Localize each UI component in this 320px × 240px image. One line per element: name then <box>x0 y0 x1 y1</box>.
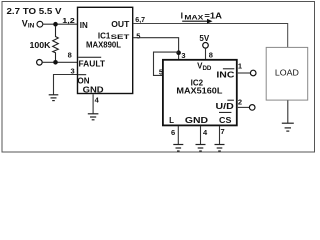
load label <box>275 68 299 78</box>
pin name VDD <box>197 61 212 72</box>
wire SET to IC2 W pin <box>133 38 178 60</box>
wire VIN to IC1 IN <box>43 23 78 25</box>
svg-text:GND: GND <box>83 85 104 94</box>
wire L to ground <box>177 126 179 144</box>
wire OUT to LOAD <box>133 24 287 48</box>
current arrow <box>182 19 212 24</box>
pin label 1,2 <box>62 16 75 25</box>
svg-text:GND: GND <box>185 116 208 125</box>
svg-text:2: 2 <box>238 97 242 106</box>
supply label 5V <box>199 34 209 43</box>
svg-text:2.7 TO 5.5 V: 2.7 TO 5.5 V <box>7 7 63 16</box>
pin label 1 <box>238 61 242 70</box>
pin name ON with overline <box>78 75 90 86</box>
ground LOAD <box>282 123 294 131</box>
pin name GND IC1 <box>83 85 104 94</box>
svg-text:7: 7 <box>221 127 225 136</box>
ground ON <box>49 95 59 101</box>
pin label 8 IC2 <box>209 51 213 60</box>
svg-text:8: 8 <box>68 51 72 60</box>
terminal INC <box>250 70 256 76</box>
pin name IN <box>80 21 88 30</box>
ground CS <box>215 145 225 152</box>
terminal VIN <box>37 21 43 27</box>
wire INC to terminal <box>238 72 251 74</box>
svg-text:6: 6 <box>171 128 175 137</box>
wire 5V to IC2 VDD <box>205 48 207 60</box>
svg-text:MAX890L: MAX890L <box>86 41 121 50</box>
supply range label 2.7 TO 5.5 V <box>7 7 63 16</box>
wire IC2 GND to ground <box>200 126 202 144</box>
wire FAULT terminal to IC1 <box>42 61 77 63</box>
svg-text:IN: IN <box>80 21 88 30</box>
svg-text:8: 8 <box>209 51 213 60</box>
part label IC1 <box>98 31 111 40</box>
svg-text:U/D: U/D <box>216 102 234 111</box>
svg-text:MAX5160L: MAX5160L <box>176 86 222 95</box>
current label IMAX=1A <box>181 11 223 22</box>
junction node R1/FAULT <box>53 60 58 65</box>
pin label 7 <box>221 127 225 136</box>
wire SET branch to IC2 H pin <box>154 52 179 75</box>
svg-text:5: 5 <box>136 32 140 41</box>
junction node SET branch <box>176 50 181 55</box>
wire ON to ground <box>54 75 78 95</box>
wire CS to ground <box>219 126 221 144</box>
op IC1 MAX890L box <box>78 7 133 93</box>
pin name L <box>169 116 174 125</box>
svg-text:1,2: 1,2 <box>62 16 75 25</box>
svg-text:OUT: OUT <box>111 20 129 29</box>
svg-text:FAULT: FAULT <box>79 60 106 69</box>
pin label 4 IC2 <box>203 128 208 137</box>
pin label 2 <box>238 97 242 106</box>
svg-text:6,7: 6,7 <box>135 15 145 24</box>
svg-text:CS: CS <box>219 116 232 125</box>
resistor R1 100K <box>53 26 59 61</box>
svg-text:5V: 5V <box>199 34 209 43</box>
svg-text:INC: INC <box>216 71 234 80</box>
pin name GND IC2 <box>185 116 208 125</box>
wire IC1 GND to ground <box>92 94 94 113</box>
load box <box>266 47 308 100</box>
pin label 6,7 <box>135 15 145 24</box>
part label MAX890L <box>86 41 121 50</box>
ground IC1 GND <box>88 114 99 120</box>
pin name CS with overline <box>219 112 232 125</box>
pin name SET <box>111 34 131 41</box>
svg-text:I: I <box>181 11 183 21</box>
pin label 8 IC1 <box>68 51 72 60</box>
wire U/D to terminal <box>238 106 250 108</box>
svg-text:MAX: MAX <box>184 15 204 22</box>
pin name INC <box>216 69 234 80</box>
ground L <box>173 145 183 152</box>
svg-text:L: L <box>169 116 174 125</box>
svg-text:1: 1 <box>238 61 242 70</box>
pin name U/D with overline on D <box>216 100 234 111</box>
junction node VIN/R1 <box>53 22 58 27</box>
part label MAX5160L <box>176 86 222 95</box>
terminal 5V <box>203 43 209 49</box>
pin name FAULT with overline <box>78 57 105 68</box>
value label 100K <box>30 41 51 50</box>
svg-text:3: 3 <box>181 51 185 60</box>
pin label 6 <box>171 128 175 137</box>
svg-text:ON: ON <box>78 77 90 86</box>
pin name OUT <box>111 20 129 29</box>
digital pot IC2 MAX5160L box <box>163 60 237 126</box>
svg-text:IC1: IC1 <box>98 31 111 40</box>
ground IC2 GND <box>196 145 206 152</box>
svg-text:100K: 100K <box>30 41 51 50</box>
pin label 4 IC1 <box>95 95 100 104</box>
node VIN label <box>22 18 35 29</box>
pin label 5 IC2 <box>159 68 163 77</box>
svg-text:LOAD: LOAD <box>275 68 299 78</box>
part label IC2 <box>191 79 204 88</box>
pin label 5 IC1 <box>136 32 140 41</box>
pin label 3 IC1 <box>71 67 75 76</box>
terminal FAULT output <box>37 60 43 66</box>
wire LOAD to ground <box>287 100 289 123</box>
terminal U/D <box>249 105 255 111</box>
pin label 3 IC2 <box>181 51 185 60</box>
